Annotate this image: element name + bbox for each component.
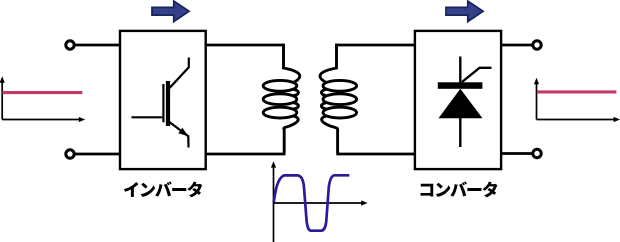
- node: DC level line (left, pink): [3, 91, 83, 94]
- inverter box U1: [120, 31, 206, 169]
- IGBT emitter arrowhead: [178, 128, 188, 136]
- wire: converter box to T4: [500, 152, 533, 155]
- thyristor gate lead: [462, 68, 492, 82]
- label: インバータ (inverter): [124, 181, 202, 197]
- IGBT emitter: [169, 122, 189, 148]
- wire: left graph horizontal axis: [2, 119, 80, 121]
- thyristor D1 (inside converter box): [460, 57, 491, 148]
- terminal T1 (input top): [66, 41, 74, 49]
- power flow arrow 1 (top left, blue): [152, 1, 189, 22]
- wire: waveform horizontal axis: [274, 202, 364, 204]
- terminal T3 (output top): [533, 41, 541, 49]
- wire: right graph vertical axis: [536, 81, 538, 120]
- converter box U2: [415, 31, 501, 169]
- transformer primary winding L1: [263, 44, 300, 154]
- terminal T2 (input bottom): [66, 150, 74, 158]
- IGBT Q1 (inside inverter box): [132, 58, 189, 148]
- wire: inverter box to primary winding bottom: [205, 153, 286, 156]
- node: AC waveform graph (below transformer): [274, 164, 364, 242]
- wire: waveform vertical axis: [273, 164, 275, 242]
- transformer secondary winding L2: [320, 44, 357, 154]
- wire: secondary winding bottom to converter box: [336, 153, 416, 156]
- wire: secondary winding top to converter box: [335, 44, 416, 47]
- IGBT gate bar: [162, 84, 164, 122]
- IGBT body bar: [166, 81, 170, 126]
- thyristor triangle: [439, 89, 483, 119]
- terminal T4 (output bottom): [533, 149, 541, 157]
- wire: T1 to inverter box: [76, 44, 122, 47]
- label: コンバータ (converter): [421, 181, 498, 197]
- AC waveform curve: [274, 175, 350, 230]
- thyristor cathode bar: [438, 82, 483, 89]
- wire: right graph horizontal axis: [537, 119, 616, 121]
- power flow arrow 2 (top right, blue): [446, 1, 483, 22]
- node: DC input graph (left): [2, 79, 80, 120]
- node: DC level line (right, pink): [538, 90, 617, 93]
- wire: inverter box to primary winding top: [205, 44, 285, 47]
- thyristor cathode lead (top): [459, 57, 461, 84]
- IGBT collector: [169, 58, 189, 89]
- wire: T2 to inverter box: [76, 153, 122, 156]
- node: DC output graph (right): [537, 81, 616, 120]
- wire: left graph vertical axis: [1, 79, 3, 120]
- IGBT gate lead: [132, 116, 163, 118]
- wire: converter box to T3: [500, 44, 533, 47]
- thyristor anode lead (bottom): [459, 118, 461, 147]
